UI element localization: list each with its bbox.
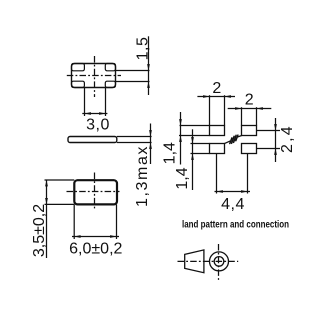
side view bar (68, 137, 117, 143)
dim 1,3max extension lines (117, 136, 152, 138)
dim 2,4 extension lines (257, 130, 281, 132)
dim 1,5 arrows (147, 64, 150, 70)
dim 4,4 extension lines (216, 154, 218, 194)
projection symbol horizontal centerline (178, 260, 239, 262)
svg-text:2,4: 2,4 (279, 124, 296, 153)
dim 2,4 arrows (274, 124, 277, 130)
projection symbol cone (185, 250, 204, 273)
dim 2 right extension lines (241, 107, 243, 125)
dim 3,0 extension lines (84, 88, 86, 116)
dim 3,5 extension lines (45, 179, 75, 181)
svg-text:6,0±0,2: 6,0±0,2 (69, 241, 122, 258)
dim 2 left extension lines (209, 95, 211, 125)
svg-text:1,4: 1,4 (161, 142, 178, 164)
dim 1,3max arrows (149, 130, 152, 136)
crystal symbol (230, 135, 238, 143)
projection symbol vertical centerline (218, 244, 220, 280)
dim 6,0 arrows (74, 235, 80, 238)
dim 1,5 dimension line (148, 36, 150, 95)
dim 2 left arrows (203, 95, 209, 98)
dim 3,0 arrows (85, 112, 91, 115)
top view pad top-left (72, 64, 85, 71)
top view pad bottom-right (105, 81, 115, 87)
dim 2 right arrows (235, 107, 241, 110)
dim 1,3max dimension line (150, 124, 152, 165)
dim 3,0 dimension line (82, 113, 107, 115)
dim 3,5 dimension line (46, 180, 48, 258)
dim 2,4 dimension line (275, 118, 277, 162)
bottom view outline (74, 180, 117, 204)
top view vertical centerline (94, 56, 96, 97)
dim 1,4 upper extension lines (180, 125, 210, 127)
land pad bottom-right (242, 144, 257, 154)
top view pad bottom-left (72, 81, 85, 87)
dim 1,4 upper dimension line (180, 112, 182, 165)
bottom view vertical centerline (94, 173, 96, 210)
svg-text:2: 2 (212, 80, 221, 97)
dim 6,0 dimension line (72, 236, 119, 238)
wire bottom-left pad to crystal (224, 141, 230, 144)
wire crystal to top-right pad (238, 136, 242, 138)
top view outline (72, 64, 116, 88)
dim 4,4 dimension line (215, 191, 251, 193)
top view pad top-right (105, 64, 115, 71)
dim 2 left dimension line (197, 96, 235, 98)
projection symbol outer circle (210, 252, 229, 271)
bottom view horizontal centerline (67, 191, 120, 193)
svg-text:3,0: 3,0 (86, 117, 110, 134)
top view horizontal centerline (67, 75, 121, 77)
land pad top-right (242, 126, 257, 136)
svg-text:1,4: 1,4 (174, 167, 191, 189)
svg-text:2: 2 (245, 92, 254, 109)
dim 1,4 lower dimension line (192, 129, 194, 190)
dim 1,4 lower arrows (191, 137, 194, 143)
dim 4,4 arrows (217, 190, 223, 193)
dim 3,5 arrows (45, 180, 48, 186)
svg-text:1,5: 1,5 (135, 37, 152, 61)
dim 1,4 upper arrows (179, 119, 182, 125)
land pad top-left (210, 126, 225, 136)
dim 1,4 lower extension lines (191, 143, 210, 145)
svg-text:3,5±0,2: 3,5±0,2 (31, 204, 48, 257)
svg-text:land pattern and connection: land pattern and connection (182, 219, 289, 231)
dim 2 right dimension line (228, 108, 272, 110)
svg-text:1,3max: 1,3max (134, 145, 151, 207)
projection symbol inner circle (214, 257, 224, 267)
dim 6,0 extension lines (73, 205, 75, 240)
land pad bottom-left (210, 144, 225, 154)
dim 1,5 extension lines (116, 70, 150, 72)
svg-text:4,4: 4,4 (221, 196, 245, 213)
